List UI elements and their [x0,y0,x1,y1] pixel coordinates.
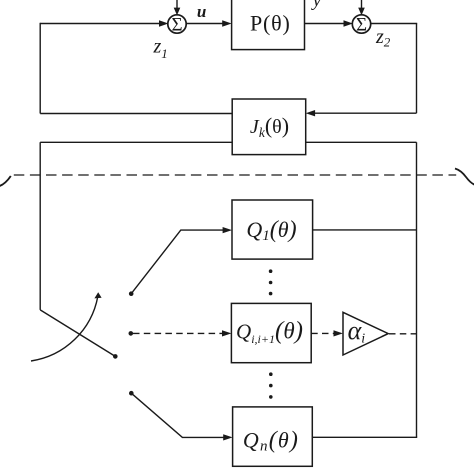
wire [312,436,417,438]
wire [40,141,232,143]
node arrow into Qn [223,434,232,440]
svg-text:u: u [197,2,206,21]
wire dashed [133,332,223,334]
dashed separator [14,174,456,176]
node arrow into S2 [344,20,353,26]
wire [370,23,417,25]
node arrow into S1 top [174,8,181,16]
svg-text:Σ: Σ [356,15,367,36]
wire [40,113,232,115]
svg-text:z1: z1 [153,36,168,62]
node arrow into P [222,20,231,26]
svg-text:Q1(θ): Q1(θ) [246,217,296,244]
wire dashed [389,333,416,335]
left break squiggle [0,176,11,186]
wire [416,24,418,114]
summing junction S1 [168,15,186,36]
node arrow into Jk right [306,110,315,116]
node contact 2 [129,331,134,336]
svg-text:Σ: Σ [171,15,182,36]
right break squiggle [455,169,474,185]
node wiper dot [113,354,118,359]
svg-text:z2: z2 [375,26,391,50]
wire [305,23,345,25]
wire [186,23,223,25]
controller Q1 [232,200,313,259]
dots column 1 [269,269,273,295]
wire [306,141,417,143]
controller Qi,i+1 [231,303,311,362]
wire dashed [311,332,334,334]
node arrow into Q1 [223,227,232,233]
wire [416,142,418,437]
wire [176,0,178,9]
svg-text:y: y [311,0,322,11]
wire [40,310,115,357]
wire [40,23,160,25]
wire [39,23,41,114]
svg-text:P(θ): P(θ) [250,10,291,35]
filter Jk [232,99,306,155]
node arrow into S2 top [358,8,365,16]
node arrow into Qi [222,330,231,336]
svg-text:Qn(θ): Qn(θ) [243,427,299,454]
wire [361,0,363,9]
wire [314,112,417,114]
amplifier alpha_i [343,312,388,355]
node arrow into S1 left [159,20,168,26]
svg-text:Jk(θ): Jk(θ) [250,113,289,140]
controller Qn [233,407,313,466]
wire [39,142,41,310]
node arrow into amp [334,330,343,336]
wire [131,393,224,437]
plant P [232,0,305,50]
wire [131,230,223,294]
dots column 2 [269,372,273,398]
summing junction S2 [352,15,370,36]
node contact 1 [129,291,134,296]
wire [313,229,417,231]
svg-text:αi: αi [348,316,366,347]
node contact 3 [129,391,134,396]
switch arc arrow [31,297,98,362]
